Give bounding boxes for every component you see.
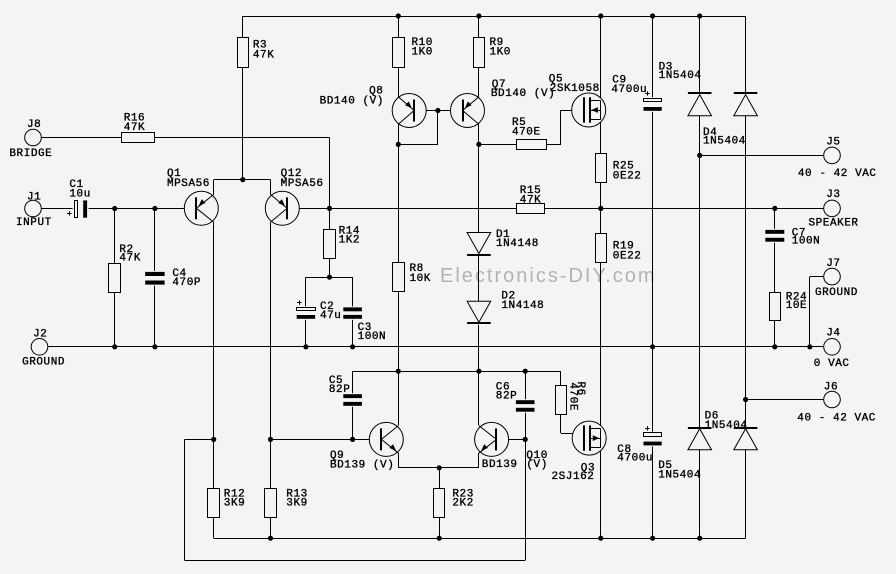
- svg-text:10E: 10E: [786, 300, 807, 312]
- svg-text:10K: 10K: [410, 273, 431, 285]
- svg-text:1K2: 1K2: [339, 235, 360, 247]
- svg-text:(V): (V): [526, 459, 547, 471]
- svg-text:47K: 47K: [119, 253, 140, 265]
- svg-text:1K0: 1K0: [490, 47, 511, 59]
- svg-text:40 - 42 VAC: 40 - 42 VAC: [797, 413, 876, 425]
- svg-text:BD139 (V): BD139 (V): [330, 459, 394, 471]
- svg-text:1N4148: 1N4148: [496, 238, 539, 250]
- svg-text:3K9: 3K9: [224, 498, 245, 510]
- svg-text:82P: 82P: [496, 391, 517, 403]
- svg-text:100N: 100N: [792, 236, 821, 248]
- svg-text:470E: 470E: [512, 127, 541, 139]
- svg-text:GROUND: GROUND: [815, 287, 858, 299]
- svg-text:J3: J3: [826, 189, 840, 201]
- svg-text:0E22: 0E22: [613, 170, 642, 182]
- svg-text:2SK1058: 2SK1058: [550, 83, 600, 95]
- svg-text:3K9: 3K9: [286, 498, 307, 510]
- svg-text:J4: J4: [826, 328, 840, 340]
- svg-text:SPEAKER: SPEAKER: [809, 218, 859, 230]
- svg-text:INPUT: INPUT: [16, 217, 52, 229]
- svg-text:47K: 47K: [520, 195, 541, 207]
- svg-text:1N5404: 1N5404: [659, 70, 702, 82]
- svg-text:J5: J5: [826, 136, 840, 148]
- svg-text:4700u: 4700u: [617, 453, 653, 465]
- svg-text:1N5404: 1N5404: [705, 420, 748, 432]
- svg-text:Electronics-DIY.com: Electronics-DIY.com: [440, 265, 657, 287]
- svg-text:GROUND: GROUND: [22, 357, 65, 369]
- svg-text:MPSA56: MPSA56: [281, 178, 324, 190]
- svg-text:1N5404: 1N5404: [658, 470, 701, 482]
- svg-text:1N4148: 1N4148: [501, 300, 544, 312]
- svg-text:100N: 100N: [358, 331, 387, 343]
- svg-text:BD140 (V): BD140 (V): [320, 96, 384, 108]
- svg-text:470P: 470P: [172, 277, 201, 289]
- svg-text:J2: J2: [33, 328, 47, 340]
- svg-text:J6: J6: [824, 382, 838, 394]
- svg-text:47K: 47K: [124, 122, 145, 134]
- svg-text:40 - 42 VAC: 40 - 42 VAC: [798, 168, 877, 180]
- svg-text:J8: J8: [27, 119, 41, 131]
- svg-text:2K2: 2K2: [452, 498, 473, 510]
- svg-text:J1: J1: [27, 191, 41, 203]
- svg-text:1N5404: 1N5404: [703, 136, 746, 148]
- svg-text:47K: 47K: [253, 49, 274, 61]
- svg-text:1K0: 1K0: [412, 47, 433, 59]
- svg-text:BD139: BD139: [482, 459, 518, 471]
- svg-text:0E22: 0E22: [613, 250, 642, 262]
- svg-text:10u: 10u: [69, 189, 90, 201]
- svg-text:BD140 (V): BD140 (V): [491, 88, 555, 100]
- svg-text:47u: 47u: [320, 310, 341, 322]
- svg-text:2SJ162: 2SJ162: [552, 471, 595, 483]
- svg-text:470E: 470E: [566, 382, 578, 411]
- svg-text:BRIDGE: BRIDGE: [9, 148, 52, 160]
- svg-text:4700u: 4700u: [611, 84, 647, 96]
- svg-text:0 VAC: 0 VAC: [814, 358, 850, 370]
- svg-text:J7: J7: [826, 258, 840, 270]
- svg-text:82P: 82P: [329, 384, 350, 396]
- svg-text:MPSA56: MPSA56: [167, 178, 210, 190]
